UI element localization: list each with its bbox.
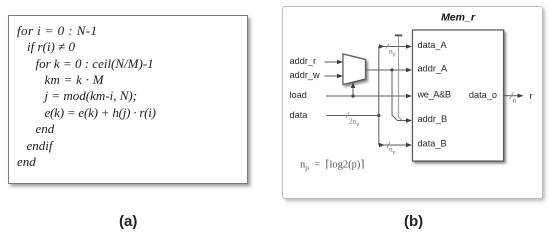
- svg-text:data_A: data_A: [418, 40, 448, 50]
- panel (a) pseudocode box: [8, 15, 248, 184]
- svg-text:addr_B: addr_B: [418, 114, 448, 124]
- wire addr_r to mux: [325, 61, 338, 63]
- mux U1: [343, 54, 366, 85]
- svg-text:addr_r: addr_r: [290, 56, 317, 66]
- wire T stem to addr_B: [399, 36, 403, 121]
- slash 2np: [346, 112, 349, 118]
- slash np (top): [386, 44, 389, 49]
- caption (b): [404, 213, 423, 230]
- svg-text:np: np: [389, 144, 396, 155]
- svg-text:r: r: [530, 91, 533, 102]
- wire addr branch down to addr_B: [392, 70, 407, 121]
- memory block Mem_r: [413, 30, 504, 161]
- wire data bus: [327, 115, 379, 117]
- tie-off T symbol: [395, 34, 402, 36]
- wire data_o output: [504, 95, 519, 97]
- svg-text:we_A&B: we_A&B: [417, 90, 451, 100]
- junction load/select: [351, 94, 354, 97]
- svg-text:load: load: [290, 90, 307, 100]
- svg-text:n: n: [513, 96, 517, 105]
- wire mux out to addr_A: [366, 69, 408, 71]
- svg-text:2np: 2np: [349, 116, 360, 127]
- svg-text:data: data: [290, 110, 309, 120]
- wire to data_B: [379, 144, 407, 146]
- svg-text:addr_w: addr_w: [290, 70, 320, 80]
- slash n out: [510, 92, 514, 99]
- wire addr_w to mux: [325, 75, 338, 77]
- wire data vertical: [378, 47, 380, 116]
- svg-text:addr_A: addr_A: [418, 64, 448, 74]
- panel (b) frame: [282, 6, 543, 199]
- wire load to we_A&B: [326, 95, 407, 97]
- slash np (bottom): [387, 142, 390, 148]
- caption (a): [119, 213, 137, 230]
- svg-text:Mem_r: Mem_r: [441, 11, 476, 23]
- svg-text:np = ⌈log2(p)⌉: np = ⌈log2(p)⌉: [300, 159, 365, 173]
- svg-text:data_o: data_o: [469, 90, 497, 100]
- wire to data_A: [379, 46, 407, 48]
- wire select up into mux: [352, 88, 354, 97]
- svg-text:np: np: [389, 46, 396, 57]
- junction addr branch: [390, 68, 393, 71]
- svg-text:data_B: data_B: [418, 139, 447, 149]
- junction data split: [377, 114, 380, 117]
